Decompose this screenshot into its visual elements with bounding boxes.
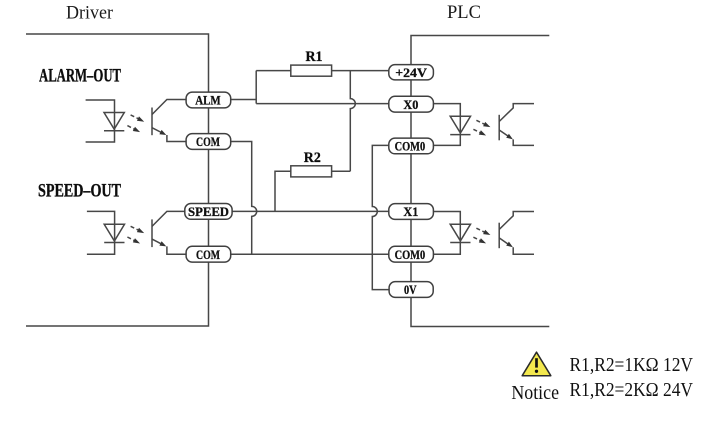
wire X0 to COM0 via PLC LED [433, 104, 460, 146]
svg-text:ALM: ALM [195, 93, 221, 108]
svg-text:PLC: PLC [447, 2, 481, 23]
wire R2 left lead down to SPEED wire [275, 171, 291, 211]
svg-text:0V: 0V [404, 282, 417, 297]
Driver box outline (open left) [26, 34, 209, 326]
terminal COM (upper) [186, 134, 231, 150]
svg-text:R1: R1 [306, 49, 323, 65]
svg-text:X0: X0 [403, 97, 418, 112]
terminal COM0 (upper) [389, 138, 434, 154]
optocoupler U1 light arrow 2 [127, 126, 140, 133]
optocoupler U2 LED bracket [87, 211, 115, 254]
wire R1 left lead [256, 70, 291, 72]
svg-text:Driver: Driver [66, 3, 114, 24]
optocoupler U3 light arrow 1 [476, 120, 490, 127]
svg-text:R1,R2=1KΩ 12V: R1,R2=1KΩ 12V [570, 354, 694, 376]
wire COM to COM vertical with hop over SPEED wire [231, 142, 257, 255]
wire R1 to R2 vertical with hop over ALM-X0 wire [350, 71, 355, 172]
notice warning triangle [522, 352, 551, 376]
svg-text:R1,R2=2KΩ 24V: R1,R2=2KΩ 24V [570, 379, 694, 401]
resistor R1 [291, 65, 332, 76]
wire junction to X0 [256, 103, 389, 105]
optocoupler U4 phototransistor Q4 [499, 212, 534, 255]
wire SPEED to X1 [232, 210, 389, 212]
optocoupler U4 LED D4 [450, 224, 470, 242]
resistor R2 [291, 166, 332, 177]
optocoupler U4 light arrow 1 [476, 228, 490, 235]
svg-text:COM0: COM0 [395, 139, 426, 154]
terminal X0 [389, 96, 434, 112]
optocoupler U1 LED bracket [86, 100, 115, 142]
wire COM0 to 0V vertical with hop over X1 wire [372, 145, 389, 289]
optocoupler U3 LED D3 [450, 116, 470, 134]
optocoupler U1 light arrow 1 [131, 115, 145, 122]
terminal SPEED [185, 204, 232, 220]
svg-text:X1: X1 [403, 204, 418, 219]
wire ALM to R1 junction [231, 99, 257, 101]
terminal ALM [186, 92, 231, 108]
wire COM to COM0 [231, 253, 389, 255]
optocoupler U1 phototransistor Q1 [152, 100, 186, 142]
terminal COM0 (lower) [389, 246, 434, 262]
optocoupler U4 light arrow 2 [473, 237, 486, 243]
optocoupler U2 light arrow 1 [131, 226, 145, 233]
PLC box outline (open right) [411, 36, 549, 327]
wire R1 left branch vertical [255, 71, 257, 104]
wire R1 right lead to +24V [332, 70, 389, 72]
optocoupler U2 light arrow 2 [127, 237, 140, 244]
optocoupler U1 LED D1 [104, 113, 124, 131]
svg-text:ALARM–OUT: ALARM–OUT [39, 66, 121, 87]
wire R2 right lead [332, 170, 351, 172]
terminal X1 [389, 204, 434, 220]
svg-text:COM: COM [196, 247, 220, 262]
terminal COM (lower) [186, 246, 231, 262]
wire X1 to COM0 via PLC LED [433, 212, 460, 255]
svg-text:SPEED: SPEED [188, 204, 229, 219]
optocoupler U3 light arrow 2 [473, 129, 486, 135]
optocoupler U2 phototransistor Q2 [152, 211, 186, 254]
svg-text:+24V: +24V [395, 65, 427, 80]
svg-text:Notice: Notice [511, 382, 559, 404]
terminal +24V [389, 65, 434, 80]
optocoupler U2 LED D2 [104, 224, 124, 242]
svg-text:R2: R2 [304, 150, 321, 166]
svg-text:COM: COM [196, 134, 220, 149]
terminal 0V [389, 282, 433, 298]
svg-text:SPEED–OUT: SPEED–OUT [38, 181, 121, 202]
svg-text:COM0: COM0 [395, 247, 426, 262]
optocoupler U3 phototransistor Q3 [499, 104, 534, 146]
